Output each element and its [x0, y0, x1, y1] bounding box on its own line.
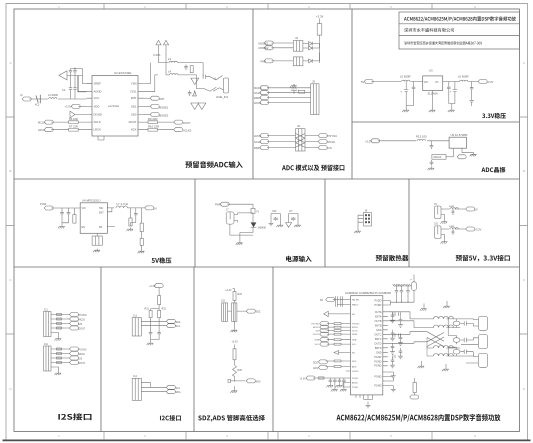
- U4 right pins: [107, 208, 115, 227]
- amplifier U6 body: [351, 296, 383, 395]
- SCL in tag: [320, 342, 329, 346]
- resistor RN1 vertical array: [317, 24, 322, 35]
- svg-text:FMT: FMT: [131, 96, 137, 100]
- U6 bottom pins: [364, 395, 373, 404]
- cap after E3: [460, 350, 473, 354]
- top right hatch grounds: [420, 307, 427, 311]
- U2 left pin names: [94, 82, 102, 132]
- decoupling caps row: [329, 378, 346, 384]
- svg-text:VIN: VIN: [424, 81, 428, 84]
- regulator U3 body: [423, 76, 443, 91]
- svg-text:L3: L3: [168, 57, 172, 61]
- power flag VD: [163, 40, 168, 46]
- section label: 3.3V稳压: [482, 113, 506, 119]
- svg-text:I2S: I2S: [79, 358, 83, 361]
- diode D6: [251, 222, 257, 227]
- 5V output tag: [145, 206, 154, 210]
- zone tick marks right: [519, 117, 527, 334]
- ground g2: [429, 109, 436, 113]
- svg-text:5V: 5V: [475, 208, 478, 212]
- capacitor C7: [188, 91, 192, 97]
- resistor R23: [233, 292, 236, 301]
- electrolytic cap E2: [453, 338, 460, 343]
- I2S tag2: [70, 356, 79, 360]
- capacitor C4 series dc-block: [36, 95, 40, 103]
- title block row 3: address: [404, 41, 482, 44]
- U6 right pin stubs: [383, 301, 388, 386]
- capacitor C3: [69, 76, 72, 99]
- bead L8: [450, 208, 458, 209]
- tag labels tiny: [311, 324, 319, 347]
- bottom caps under IC left: [356, 395, 360, 398]
- cap C14: [470, 86, 474, 92]
- cap after E1: [460, 321, 473, 325]
- svg-text:MODE1: MODE1: [259, 41, 269, 45]
- svg-text:LINE_IN1: LINE_IN1: [216, 95, 229, 99]
- svg-text:A: A: [523, 61, 525, 65]
- PVDD bus: [388, 301, 414, 306]
- svg-text:OUTD: OUTD: [374, 342, 381, 345]
- capacitor C1: [69, 69, 72, 76]
- 5V input tag: [364, 80, 373, 84]
- svg-text:FAULT: FAULT: [352, 304, 359, 307]
- J11 series resistors: [57, 314, 62, 316]
- post-coil junction rail: [446, 319, 473, 356]
- svg-text:L7 4.7uH: L7 4.7uH: [117, 202, 128, 206]
- svg-text:J3: J3: [295, 36, 298, 40]
- feedback resistor R16: [129, 218, 132, 226]
- svg-text:R12 100: R12 100: [416, 135, 427, 139]
- out tag: [457, 155, 466, 159]
- svg-text:+3.3V: +3.3V: [475, 228, 482, 232]
- snubber caps column2: [398, 316, 403, 359]
- PA_EN tag: [326, 298, 335, 302]
- svg-text:SCLK: SCLK: [254, 140, 261, 144]
- svg-text:DOUT: DOUT: [129, 120, 137, 124]
- LRCK in tag: [320, 332, 329, 336]
- ground hatch for D7: [294, 224, 301, 228]
- header J11: [44, 312, 52, 337]
- resistor R12: [417, 139, 425, 140]
- svg-text:PVDD: PVDD: [352, 387, 358, 389]
- svg-text:+3.3V: +3.3V: [487, 80, 494, 84]
- connector J9: [435, 206, 441, 219]
- svg-text:J14: J14: [133, 375, 138, 378]
- svg-text:MCLK: MCLK: [352, 327, 359, 329]
- diode D3: [303, 42, 320, 46]
- CLOCK tag: [260, 91, 269, 95]
- U2 left pin stubs: [87, 84, 92, 130]
- svg-text:R21: R21: [145, 308, 150, 311]
- svg-text:LRCK: LRCK: [38, 128, 45, 132]
- pullup R21: [149, 310, 152, 317]
- svg-text:SD1: SD1: [131, 104, 137, 108]
- svg-text:LRCK: LRCK: [254, 101, 262, 105]
- +3.3V flag i2c: [154, 284, 163, 288]
- wire top rail: [67, 69, 92, 84]
- svg-text:J10: J10: [434, 223, 439, 226]
- svg-text:C2: C2: [62, 88, 66, 92]
- output wire: [127, 207, 144, 209]
- svg-text:R26: R26: [238, 369, 243, 372]
- resistor R24 beside: [232, 303, 237, 321]
- J8 pin stubs: [358, 215, 364, 229]
- svg-text:SCLK: SCLK: [94, 120, 101, 124]
- J13 wires: [141, 321, 166, 330]
- svg-text:FB: FB: [99, 226, 102, 229]
- wire from Y2M pin up: [144, 63, 159, 92]
- resistor R8 vertical: [190, 66, 193, 73]
- LRCK2 tag: [260, 101, 269, 105]
- grounds under coils: [418, 365, 425, 369]
- ground gC20: [58, 225, 65, 229]
- barrel jack J7: [226, 212, 234, 224]
- PSYNC in tag: [320, 322, 329, 326]
- svg-text:600R: 600R: [449, 206, 455, 208]
- agnd triangle bottom2: [198, 103, 206, 110]
- svg-text:VO: VO: [435, 81, 439, 84]
- section label: 预留音频ADC输入: [185, 161, 242, 168]
- svg-text:ADS: ADS: [313, 367, 318, 370]
- resistor R9: [144, 121, 174, 124]
- ferrite bead L3: [169, 61, 177, 62]
- svg-text:BSTC: BSTC: [375, 338, 382, 341]
- svg-text:NC: NC: [352, 353, 356, 355]
- electrolytic cap E3: [453, 349, 460, 354]
- fuse F1: [251, 208, 255, 213]
- U6 right pin names: [374, 300, 382, 388]
- resistor R15 vertical: [73, 215, 76, 224]
- section label: 电源输入: [286, 256, 312, 262]
- MODE1 tag: [264, 41, 273, 45]
- svg-text:SDZ: SDZ: [352, 361, 357, 363]
- capacitor C6: [184, 65, 188, 71]
- svg-text:J5: J5: [312, 80, 315, 84]
- svg-text:L5 600R: L5 600R: [400, 75, 411, 79]
- U6 left pin stubs: [346, 300, 351, 388]
- FMT net tag: [144, 97, 151, 99]
- wire to fuse: [227, 204, 253, 222]
- polar cap C10: [404, 82, 408, 98]
- svg-text:R7 22R: R7 22R: [69, 124, 78, 128]
- resistor R20: [158, 296, 161, 305]
- DOUT tag: [174, 120, 183, 124]
- DGND flag triangle: [70, 111, 87, 118]
- polar cap C13: [453, 82, 457, 98]
- MCLK tag1: [70, 317, 79, 321]
- triangle gnd for D7: [286, 217, 292, 227]
- mid cap C8: [291, 84, 297, 94]
- svg-text:I2S: I2S: [328, 146, 332, 150]
- header J3: [293, 41, 303, 52]
- header J6 resistor network: [296, 129, 306, 151]
- svg-text:SDIN: SDIN: [352, 334, 358, 336]
- svg-text:PSYNC: PSYNC: [79, 349, 88, 352]
- svg-text:MCLK: MCLK: [328, 140, 336, 144]
- svg-text:SCK: SCK: [131, 128, 137, 132]
- svg-text:PSYNC: PSYNC: [311, 324, 319, 326]
- svg-text:SCLK: SCLK: [254, 91, 261, 95]
- CLOCK3 tag: [260, 140, 269, 144]
- svg-text:SDZ: SDZ: [256, 311, 261, 314]
- cap under L8: [452, 209, 455, 215]
- svg-text:J15: J15: [221, 300, 226, 303]
- ground g5: [470, 153, 477, 157]
- inductor L11: [434, 325, 454, 328]
- NC flag triangle: [334, 351, 346, 355]
- svg-text:EN: EN: [82, 226, 86, 229]
- svg-text:AVDD: AVDD: [352, 382, 358, 385]
- svg-text:J12: J12: [44, 343, 49, 346]
- svg-text:PGND: PGND: [374, 385, 381, 388]
- MCLK input tag: [44, 120, 53, 124]
- ground U6 bottom: [366, 404, 371, 408]
- heatsink header J8: [364, 213, 372, 227]
- U6 left pin names: [352, 299, 360, 390]
- mid ground: [290, 84, 297, 88]
- zone tick marks left: [6, 117, 14, 334]
- J10 wires: [441, 229, 466, 240]
- svg-text:BSTA: BSTA: [375, 315, 382, 318]
- ground gSDZ: [231, 329, 238, 333]
- 5V tag J9: [466, 207, 475, 211]
- PWR input tag: [220, 202, 229, 206]
- cap under L9: [452, 229, 455, 235]
- svg-text:Y2M: Y2M: [131, 82, 137, 86]
- svg-text:LRCK: LRCK: [94, 128, 102, 132]
- svg-text:AGND: AGND: [94, 90, 102, 94]
- svg-text:ADS: ADS: [256, 381, 261, 384]
- DOUT tag2: [70, 361, 79, 365]
- svg-text:DGND: DGND: [94, 112, 102, 116]
- MCLK3 tag: [318, 140, 327, 144]
- +3.3V tag J10: [466, 227, 475, 231]
- MCLK tag2: [70, 352, 79, 356]
- SCL tag2: [166, 385, 175, 389]
- audio jack J2 body: [224, 78, 229, 93]
- resistor R6: [51, 121, 86, 124]
- I2S tag1: [70, 322, 79, 326]
- section label: ADC晶振: [481, 167, 505, 173]
- svg-text:SCL: SCL: [176, 387, 181, 390]
- power flag VA: [156, 40, 161, 46]
- resistor R26 zigzag: [233, 365, 237, 381]
- bottom right tag: [410, 395, 419, 399]
- wire: [378, 140, 449, 142]
- svg-text:SDA: SDA: [315, 339, 320, 342]
- ground g1: [402, 109, 409, 113]
- wire rails to jack: [178, 63, 204, 89]
- svg-text:GVDD: GVDD: [352, 371, 359, 373]
- cap C21: [67, 211, 71, 217]
- svg-text:R23: R23: [238, 293, 243, 296]
- cap C16: [430, 144, 434, 150]
- J9 wires: [441, 209, 466, 220]
- bead L6: [460, 80, 468, 81]
- U5 pins: [454, 148, 474, 157]
- svg-text:+3.3V: +3.3V: [232, 341, 239, 344]
- ground gJ10: [441, 240, 448, 244]
- svg-text:U2 ES7243E: U2 ES7243E: [114, 71, 131, 75]
- resistor R25: [233, 349, 236, 360]
- svg-text:PWR: PWR: [215, 204, 221, 207]
- wire AGND row: [78, 76, 87, 92]
- resistor R18 vertical: [140, 238, 143, 245]
- svg-text:SDA: SDA: [352, 339, 357, 342]
- section label: 预留散热器: [376, 255, 409, 261]
- resistor R11: [298, 90, 305, 93]
- ferrite bead L4: [170, 74, 178, 75]
- U2 right pin stubs: [138, 84, 144, 130]
- PVDD hatch grounds above: [393, 284, 411, 286]
- cap C12: [447, 85, 451, 91]
- cap C28: [157, 331, 161, 337]
- inductor L7: [116, 206, 127, 208]
- svg-text:+3.3V: +3.3V: [365, 140, 372, 144]
- J12 pin wires: [51, 349, 63, 372]
- AVDD wire: [343, 383, 346, 388]
- svg-text:+3.3V: +3.3V: [225, 289, 232, 292]
- svg-text:L6 600R: L6 600R: [458, 75, 469, 79]
- LRCK3 tag: [260, 134, 269, 138]
- output connector P1: [478, 316, 487, 330]
- svg-text:DMIT: DMIT: [254, 96, 261, 100]
- +3.3V tag amp: [306, 376, 315, 380]
- svg-text:SCL: SCL: [176, 325, 181, 328]
- DMIT tag: [260, 96, 269, 100]
- SDA tag2: [166, 390, 175, 394]
- MCLK tag: [260, 86, 269, 90]
- svg-text:OUTC: OUTC: [374, 333, 381, 336]
- jack switch contact lower: [203, 87, 223, 91]
- svg-text:DOUT: DOUT: [79, 362, 86, 365]
- svg-text:DMIT: DMIT: [254, 146, 261, 150]
- connector J10: [435, 226, 441, 239]
- cap C23 group: [271, 214, 280, 221]
- svg-text:DOUT: DOUT: [183, 121, 191, 125]
- svg-text:MCLK: MCLK: [79, 353, 86, 356]
- svg-text:B: B: [523, 169, 525, 173]
- svg-text:Y2SL: Y2SL: [130, 90, 137, 94]
- svg-text:SD0: SD0: [131, 112, 137, 116]
- svg-text:MODE2: MODE2: [159, 114, 169, 118]
- section label: 5V稳压: [152, 257, 172, 263]
- header J4: [293, 57, 303, 66]
- thermal pad: [92, 236, 102, 245]
- MODE2 tag: [264, 46, 273, 50]
- header J13: [132, 318, 141, 336]
- svg-text:5V: 5V: [361, 80, 364, 84]
- svg-text:PSYNC: PSYNC: [352, 324, 360, 326]
- svg-text:LRCK: LRCK: [254, 134, 262, 138]
- J12 series resistors: [57, 348, 62, 350]
- svg-text:MCLK: MCLK: [79, 319, 86, 322]
- section label: ADC 模式以及 预留接口: [282, 165, 344, 171]
- ground gJ9: [441, 220, 448, 224]
- header J12: [44, 346, 52, 371]
- bootstrap caps inline: [393, 312, 401, 316]
- svg-text:J13: J13: [133, 314, 138, 317]
- capacitor C4b: [73, 76, 76, 99]
- cap C22: [134, 212, 138, 218]
- svg-text:PGND: PGND: [374, 376, 381, 379]
- section label: 预留5V、3.3V接口: [456, 255, 510, 262]
- svg-text:+3.3V: +3.3V: [65, 105, 72, 109]
- J11 pin wires: [51, 315, 63, 338]
- input wire: [371, 81, 422, 83]
- svg-text:B: B: [9, 169, 11, 173]
- resistor R10: [144, 128, 174, 131]
- diode D5: [303, 53, 320, 63]
- svg-text:L4: L4: [168, 69, 172, 73]
- cap C17: [430, 160, 434, 166]
- header J14: [132, 378, 141, 400]
- DMIT3 tag: [260, 146, 269, 150]
- ADS series resistor: [334, 366, 341, 368]
- svg-text:PAD: PAD: [261, 59, 267, 63]
- svg-text:SCLK: SCLK: [352, 331, 358, 333]
- svg-text:DOUT: DOUT: [313, 334, 320, 336]
- diode D4: [303, 44, 320, 50]
- ground g3: [448, 109, 455, 113]
- svg-text:+3.3V: +3.3V: [316, 15, 324, 19]
- svg-text:PGND: PGND: [374, 360, 381, 363]
- svg-text:5V: 5V: [154, 207, 157, 211]
- PSYNC tag2: [70, 347, 79, 351]
- ferrite bead L2: [49, 98, 57, 99]
- zone tick marks top: [104, 4, 432, 10]
- output connector P3: [478, 353, 487, 367]
- PSYNC tag1: [70, 313, 79, 317]
- PSYNC tag: [318, 134, 327, 138]
- title block row 1: product name: [404, 16, 516, 21]
- svg-text:MCLK: MCLK: [313, 327, 320, 329]
- wire to ADS tag: [230, 380, 246, 382]
- +3.3V out tag: [478, 80, 487, 84]
- J8 pin squares: [365, 214, 370, 223]
- agnd triangle bottom1: [191, 103, 199, 110]
- MODE1 net tag: [144, 105, 151, 107]
- svg-text:+3.3V: +3.3V: [300, 378, 307, 381]
- SDA in tag: [320, 338, 329, 342]
- svg-text:MCLK: MCLK: [254, 86, 262, 90]
- svg-text:+3.3V: +3.3V: [149, 285, 156, 288]
- svg-text:BSTD: BSTD: [375, 347, 382, 350]
- TVS D7 group: [289, 214, 298, 221]
- output wires to coils: [388, 312, 434, 344]
- ground gI2C: [147, 342, 154, 346]
- wire input to VCC: [29, 98, 86, 100]
- section label: I2S接口: [58, 413, 91, 420]
- wire to SDZ tag: [228, 311, 247, 328]
- SDZ series resistor: [334, 360, 341, 362]
- svg-text:4C2: 4C2: [35, 104, 40, 107]
- pullup R22: [158, 310, 161, 317]
- svg-text:PVDD: PVDD: [375, 300, 382, 303]
- SCL tag: [166, 324, 175, 328]
- cap C20: [60, 211, 64, 217]
- svg-text:MCLK: MCLK: [38, 121, 45, 125]
- svg-text:PGND: PGND: [374, 356, 381, 359]
- ground gADS: [231, 389, 238, 393]
- svg-text:VCC: VCC: [94, 96, 100, 100]
- header J5: [311, 84, 319, 115]
- I2S tag: [318, 146, 327, 150]
- svg-text:MCLK: MCLK: [434, 155, 442, 159]
- ground gJ8: [354, 230, 361, 234]
- svg-text:PA_EN: PA_EN: [352, 299, 359, 302]
- PVDD caps bank: [395, 286, 398, 302]
